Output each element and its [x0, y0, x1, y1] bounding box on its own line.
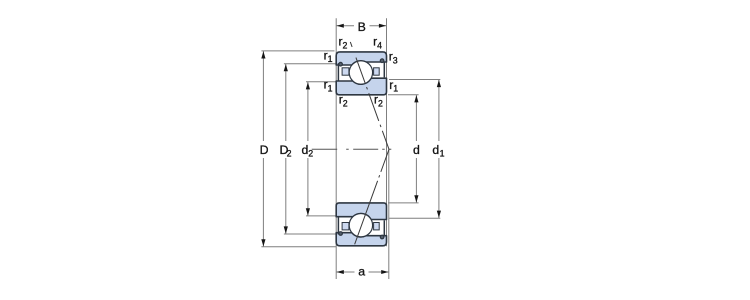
svg-text:1: 1 — [440, 149, 445, 159]
cage upper left — [342, 68, 349, 75]
svg-text:2: 2 — [287, 149, 292, 159]
dimension a — [336, 264, 389, 278]
dimension d — [388, 95, 420, 203]
ball lower — [349, 214, 372, 237]
svg-text:3: 3 — [393, 55, 398, 65]
svg-text:1: 1 — [328, 54, 333, 64]
svg-text:2: 2 — [378, 99, 383, 109]
inner ring upper — [336, 78, 386, 95]
svg-text:1: 1 — [393, 84, 398, 94]
dimension D — [260, 51, 337, 247]
wire left face extension line — [335, 18, 337, 279]
wire a right extension line — [388, 149, 390, 279]
cage lower left — [342, 223, 349, 230]
outer ring upper — [336, 52, 386, 65]
bearing lower section (mirror) — [336, 203, 386, 246]
dimension D2 — [280, 64, 337, 234]
svg-text:2: 2 — [343, 99, 348, 109]
svg-text:1: 1 — [328, 84, 333, 94]
svg-text:2: 2 — [343, 41, 348, 51]
dimension B — [336, 20, 386, 34]
seal lower right — [383, 220, 385, 235]
svg-text:4: 4 — [377, 41, 382, 51]
seal lower left — [337, 217, 339, 234]
cage upper right — [374, 68, 380, 75]
seal upper right — [383, 62, 385, 77]
svg-text:a: a — [358, 264, 365, 278]
ball upper — [349, 61, 372, 84]
svg-text:d: d — [413, 143, 420, 157]
contact angle line lower — [354, 149, 389, 246]
svg-text:B: B — [358, 20, 366, 34]
inner ring lower — [336, 203, 386, 220]
dimension d1 — [389, 80, 445, 219]
svg-text:D: D — [260, 143, 269, 157]
dimension d2 — [302, 82, 337, 216]
cage lower right — [374, 223, 380, 230]
axis centerline — [312, 148, 392, 150]
outer ring lower — [336, 233, 386, 246]
contact angle line upper — [350, 40, 389, 149]
wire right face extension line — [386, 18, 388, 246]
svg-text:d: d — [432, 143, 439, 157]
bearing upper section — [336, 52, 386, 95]
svg-text:2: 2 — [308, 149, 313, 159]
seal upper left — [337, 63, 339, 80]
